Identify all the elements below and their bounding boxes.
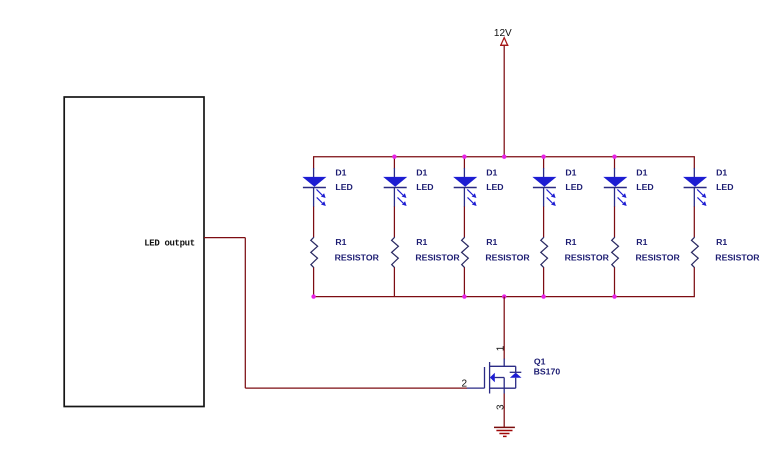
svg-text:D1: D1 — [716, 167, 727, 177]
power symbol 12V (arrow) — [500, 38, 509, 46]
value label RESISTOR (branch 3) — [485, 253, 530, 263]
label D1 (branch 1) — [335, 167, 346, 177]
svg-text:LED: LED — [416, 182, 433, 192]
wire branch 4 bottom segment — [543, 268, 545, 297]
LED D1 (branch 6) — [684, 168, 707, 207]
svg-text:R1: R1 — [716, 237, 727, 247]
pin number 1 (drain) — [495, 345, 506, 351]
wire branch 3 top segment — [463, 157, 465, 169]
junction dot top rail x=504.2 — [502, 155, 506, 159]
wire branch 3 bottom segment — [463, 268, 465, 297]
svg-text:2: 2 — [462, 379, 468, 390]
label R1 (branch 2) — [416, 237, 427, 247]
junction dot bottom rail x=464.4 — [462, 294, 466, 298]
svg-text:RESISTOR: RESISTOR — [565, 253, 610, 263]
resistor R1 (branch 3) — [462, 237, 469, 268]
resistor R1 (branch 5) — [612, 237, 619, 268]
label D1 (branch 5) — [636, 167, 647, 177]
svg-text:BS170: BS170 — [534, 367, 561, 377]
value label LED (branch 3) — [486, 182, 503, 192]
value label LED (branch 4) — [565, 182, 582, 192]
label R1 (branch 5) — [636, 237, 647, 247]
svg-text:D1: D1 — [636, 167, 647, 177]
svg-text:LED: LED — [636, 182, 653, 192]
svg-text:LED: LED — [335, 182, 352, 192]
svg-text:RESISTOR: RESISTOR — [485, 253, 530, 263]
value label RESISTOR (branch 5) — [636, 253, 681, 263]
wire drain tap — [503, 297, 505, 360]
block LED driver (left rectangle) — [64, 97, 204, 407]
svg-text:D1: D1 — [335, 167, 346, 177]
svg-text:LED output: LED output — [144, 238, 195, 248]
label R1 (branch 3) — [486, 237, 497, 247]
value label LED (branch 5) — [636, 182, 653, 192]
value label RESISTOR (branch 4) — [565, 253, 610, 263]
wire branch 1 bottom segment — [313, 268, 315, 297]
label D1 (branch 2) — [416, 167, 427, 177]
value label LED (branch 6) — [716, 182, 733, 192]
svg-text:R1: R1 — [335, 237, 346, 247]
label R1 (branch 1) — [335, 237, 346, 247]
label D1 (branch 4) — [565, 167, 576, 177]
wire branch 6 middle segment — [693, 207, 695, 238]
svg-text:R1: R1 — [416, 237, 427, 247]
junction dot top rail x=464.4 — [462, 155, 466, 159]
wire branch 2 middle segment — [393, 207, 395, 238]
junction dot bottom rail x=614.5 — [612, 294, 616, 298]
wire branch 4 top segment — [543, 157, 545, 169]
svg-text:RESISTOR: RESISTOR — [335, 253, 380, 263]
svg-text:RESISTOR: RESISTOR — [415, 253, 460, 263]
wire branch 1 top segment — [313, 157, 315, 169]
svg-text:D1: D1 — [486, 167, 497, 177]
wire branch 5 top segment — [614, 157, 616, 169]
wire bottom rail — [313, 296, 695, 298]
junction dot top rail x=543.6 — [541, 155, 545, 159]
label Q1 — [534, 357, 546, 367]
svg-text:LED: LED — [486, 182, 503, 192]
LED D1 (branch 2) — [384, 168, 407, 207]
label D1 (branch 6) — [716, 167, 727, 177]
value label LED (branch 2) — [416, 182, 433, 192]
junction dot top rail x=394.4 — [392, 155, 396, 159]
wire branch 6 bottom segment — [693, 268, 695, 297]
svg-text:LED: LED — [565, 182, 582, 192]
wire branch 1 middle segment — [313, 207, 315, 238]
wire source to ground — [503, 394, 505, 428]
wire branch 2 bottom segment — [393, 268, 395, 297]
LED D1 (branch 4) — [533, 168, 556, 207]
svg-text:R1: R1 — [486, 237, 497, 247]
svg-text:LED: LED — [716, 182, 733, 192]
resistor R1 (branch 2) — [392, 237, 399, 268]
svg-text:RESISTOR: RESISTOR — [715, 253, 760, 263]
resistor R1 (branch 4) — [541, 237, 548, 268]
value label RESISTOR (branch 6) — [715, 253, 760, 263]
label R1 (branch 6) — [716, 237, 727, 247]
label 12V — [494, 28, 512, 39]
value label RESISTOR (branch 1) — [335, 253, 380, 263]
wire branch 4 middle segment — [543, 207, 545, 238]
junction dot bottom rail x=543.6 — [541, 294, 545, 298]
ground — [494, 427, 515, 436]
junction dot bottom rail x=313.6 — [311, 294, 315, 298]
LED D1 (branch 5) — [604, 168, 627, 207]
label LED output — [144, 238, 195, 248]
svg-text:D1: D1 — [565, 167, 576, 177]
wire branch 3 middle segment — [463, 207, 465, 238]
svg-text:12V: 12V — [494, 28, 512, 39]
svg-text:3: 3 — [496, 404, 507, 410]
transistor Q1 BS170 — [467, 359, 522, 394]
label D1 (branch 3) — [486, 167, 497, 177]
resistor R1 (branch 1) — [311, 237, 318, 268]
wire 12V stem — [503, 46, 505, 157]
svg-text:Q1: Q1 — [534, 357, 546, 367]
wire branch 6 top segment — [693, 157, 695, 169]
wire branch 5 bottom segment — [614, 268, 616, 297]
LED D1 (branch 1) — [303, 168, 326, 207]
svg-text:1: 1 — [495, 345, 506, 351]
wire top rail — [313, 156, 695, 158]
pin number 3 (source) — [496, 404, 507, 410]
label R1 (branch 4) — [565, 237, 576, 247]
junction dot bottom rail x=504.2 — [502, 294, 506, 298]
LED D1 (branch 3) — [454, 168, 477, 207]
pin number 2 (gate) — [462, 379, 468, 390]
wire branch 2 top segment — [393, 157, 395, 169]
wire horizontal to gate — [245, 387, 467, 389]
wire branch 5 middle segment — [614, 207, 616, 238]
svg-text:RESISTOR: RESISTOR — [636, 253, 681, 263]
resistor R1 (branch 6) — [692, 237, 699, 268]
svg-text:D1: D1 — [416, 167, 427, 177]
value label RESISTOR (branch 2) — [415, 253, 460, 263]
junction dot top rail x=614.5 — [612, 155, 616, 159]
value label LED (branch 1) — [335, 182, 352, 192]
value label BS170 — [534, 367, 561, 377]
wire block output horizontal — [204, 237, 245, 239]
svg-text:R1: R1 — [565, 237, 576, 247]
svg-text:R1: R1 — [636, 237, 647, 247]
wire vertical down at x=245 — [244, 238, 246, 389]
